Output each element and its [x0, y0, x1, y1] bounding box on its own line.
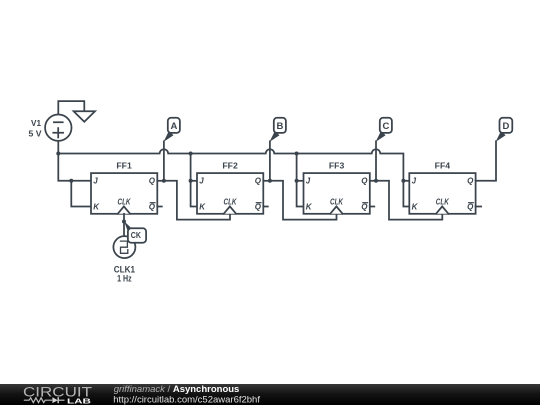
svg-text:Q: Q: [467, 202, 474, 211]
svg-text:Q: Q: [149, 202, 156, 211]
node junction FF2 J: [189, 179, 193, 183]
wire FF1 Q to FF2 CLK: [164, 181, 230, 220]
wire FF3 Q stub: [370, 180, 376, 182]
wire FF2 Q stub: [263, 180, 270, 182]
svg-text:J: J: [306, 177, 311, 186]
wire V1 top to ground: [58, 101, 84, 114]
wire FF1 Q up to flag A: [163, 141, 165, 181]
wire FF4 Qbar stub: [476, 206, 482, 208]
wire FF3 J stub: [297, 180, 304, 182]
wire 5V rail with hops: [58, 149, 409, 206]
flag B: [270, 118, 286, 142]
wire FF2 Q to FF3 CLK: [270, 181, 337, 220]
wire FF3 Q up to flag C: [375, 141, 377, 181]
wire FF2 Qbar stub: [263, 206, 268, 208]
flag C: [376, 118, 392, 142]
svg-text:1 Hz: 1 Hz: [117, 274, 132, 284]
svg-text:Q: Q: [361, 177, 368, 186]
node junction CLK1: [122, 220, 126, 224]
svg-text:FF3: FF3: [329, 160, 345, 170]
flip-flop FF3: [304, 160, 370, 213]
svg-text:CLK: CLK: [118, 198, 132, 207]
svg-text:FF2: FF2: [222, 160, 238, 170]
footer text: [113, 384, 260, 405]
node junction FF3 J: [295, 179, 299, 183]
svg-text:FF4: FF4: [435, 160, 451, 170]
svg-text:Q: Q: [361, 202, 368, 211]
node junction FF3 Q: [374, 179, 378, 183]
svg-text:CLK: CLK: [330, 198, 344, 207]
flag A: [164, 118, 180, 142]
svg-text:Q: Q: [149, 177, 156, 186]
svg-text:CLK: CLK: [436, 198, 450, 207]
svg-text:J: J: [93, 177, 98, 186]
node junction FF1 Q: [162, 179, 166, 183]
svg-text:CK: CK: [131, 231, 141, 240]
wire FF2 J stub: [191, 180, 197, 182]
ground: [74, 111, 95, 122]
wire FF1 K branch: [71, 181, 91, 207]
node junction FF1 JK: [69, 179, 73, 183]
flip-flop FF2: [197, 160, 263, 213]
svg-text:5 V: 5 V: [29, 128, 42, 138]
wire FF1 CLK down to clock: [123, 214, 125, 236]
svg-text:Q: Q: [467, 177, 474, 186]
node junction V1-rail: [56, 152, 60, 156]
wire V1 down to FF1 J level: [58, 154, 91, 181]
svg-text:Q: Q: [255, 202, 262, 211]
svg-text:A: A: [170, 121, 177, 132]
wire rail to FF2 JK: [191, 154, 197, 207]
flip-flop FF1: [91, 160, 157, 213]
wire rail to FF3 JK: [297, 154, 304, 207]
clock source CLK1: [113, 236, 135, 258]
svg-text:B: B: [276, 121, 283, 132]
svg-text:FF1: FF1: [116, 160, 132, 170]
wire FF4 J stub: [403, 180, 409, 182]
wire FF1 Q stub: [157, 180, 164, 182]
svg-text:CLK: CLK: [224, 198, 238, 207]
svg-text:http://circuitlab.com/c52awar6: http://circuitlab.com/c52awar6f2bhf: [113, 394, 260, 405]
voltage source V1: [45, 115, 71, 141]
flag D: [496, 118, 513, 142]
CircuitLab logo: [23, 384, 92, 405]
node junction FF2 Q: [268, 179, 272, 183]
svg-text:J: J: [199, 177, 204, 186]
node junction rail FF2: [189, 152, 193, 156]
svg-text:C: C: [382, 121, 389, 132]
svg-text:J: J: [412, 177, 417, 186]
flag CK: [124, 221, 146, 243]
svg-text:V1: V1: [31, 118, 41, 128]
wire FF2 Q up to flag B: [269, 141, 271, 181]
wire FF1 Qbar stub: [157, 206, 162, 208]
svg-text:D: D: [502, 121, 509, 132]
wire FF3 Qbar stub: [370, 206, 375, 208]
node junction FF4 J: [401, 179, 405, 183]
svg-text:Q: Q: [255, 177, 262, 186]
svg-text:LAB: LAB: [67, 396, 92, 405]
wire FF4 Q to flag D: [476, 141, 496, 181]
node junction rail FF3: [295, 152, 299, 156]
wire V1 bottom: [57, 141, 59, 154]
wire FF3 Q to FF4 CLK: [376, 181, 442, 220]
flip-flop FF4: [409, 160, 475, 213]
